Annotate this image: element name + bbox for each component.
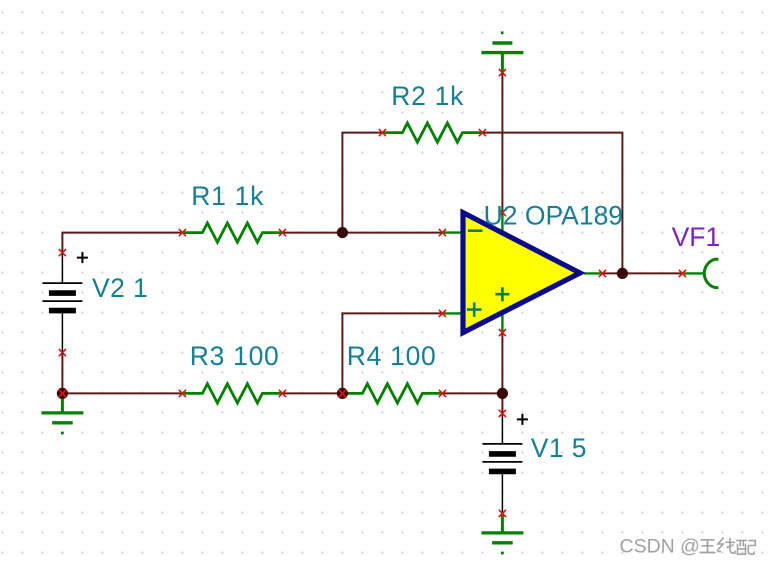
wire: R1 right to inverting input: [282, 232, 442, 234]
wire: R2 right to output node: [482, 133, 622, 274]
voltage source V1: [482, 413, 522, 513]
pin mark R4 left terminal: [339, 390, 346, 397]
op-amp U2 output pin stub: [584, 272, 603, 274]
VF1 probe: [704, 259, 718, 287]
pin mark R4 right terminal: [439, 390, 446, 397]
resistor R1: [182, 223, 282, 242]
pin mark R2 left terminal: [379, 129, 386, 136]
pin mark at ground node left: [59, 390, 66, 397]
op-amp U2 negative supply pin stub: [501, 313, 503, 333]
V1 polarity plus mark: [517, 414, 528, 425]
pin mark top ground terminal: [499, 69, 506, 76]
junction node output: [617, 268, 628, 279]
wire: top ground to op-amp V+ pin: [501, 73, 503, 213]
watermark glyph chun: [717, 538, 735, 554]
wire: V2 bottom to ground node: [61, 353, 63, 394]
pin mark U2 non-inverting input: [439, 310, 446, 317]
junction node B: [337, 388, 348, 399]
wire: op-amp V- pin to V1 node to V1 top: [501, 333, 503, 414]
op-amp input minus sign: [468, 229, 483, 232]
pin mark U2 negative supply pin: [499, 329, 506, 336]
svg-text:R3 100: R3 100: [190, 341, 280, 371]
resistor R2: [382, 123, 482, 142]
svg-text:R1 1k: R1 1k: [191, 181, 264, 211]
wire: ground node to R3 left: [62, 392, 182, 394]
wire: R4 right to V1 node: [442, 392, 502, 394]
junction node V1-top: [497, 388, 508, 399]
svg-text:R2 1k: R2 1k: [391, 81, 464, 111]
ground (bottom left, under V2): [41, 393, 83, 433]
pin mark V1 positive terminal: [499, 410, 506, 417]
op-amp input plus sign: [467, 302, 482, 317]
junction node ground-left: [57, 388, 68, 399]
resistor R3: [182, 384, 282, 403]
watermark glyph wang: [700, 540, 716, 553]
pin mark U2 inverting input: [439, 229, 446, 236]
pin mark VF1 probe terminal: [679, 270, 686, 277]
pin mark V2 positive terminal: [59, 249, 66, 256]
pin mark U2 positive supply pin: [499, 209, 506, 216]
ground (top, above op-amp): [481, 33, 523, 73]
pin mark R1 left terminal: [179, 229, 186, 236]
V2 polarity plus mark: [77, 252, 88, 263]
svg-text:U2 OPA189: U2 OPA189: [484, 201, 623, 231]
op-amp U2 triangle: [463, 213, 580, 333]
op-amp supply plus sign: [495, 287, 509, 301]
wire: node B to non-inverting input: [342, 313, 442, 393]
pin mark R3 left terminal: [179, 390, 186, 397]
ground (bottom right, under V1): [481, 513, 523, 553]
pin mark V1 negative terminal: [499, 510, 506, 517]
wire: R3 right to node B: [282, 392, 342, 394]
svg-text:V2 1: V2 1: [92, 273, 148, 303]
watermark CSDN: [620, 535, 703, 559]
wire: V2 top to R1 left: [62, 233, 182, 253]
watermark glyph pei: [736, 540, 755, 554]
svg-text:V1 5: V1 5: [531, 433, 587, 463]
pin mark R3 right terminal: [279, 390, 286, 397]
svg-text:CSDN @: CSDN @: [620, 535, 700, 557]
wire: node A up to R2 left: [342, 133, 382, 233]
junction node A (inverting input): [337, 227, 348, 238]
svg-text:R4 100: R4 100: [347, 341, 437, 371]
pin mark V2 negative terminal: [59, 349, 66, 356]
voltage source V2: [42, 253, 82, 353]
wire: output to VF1: [602, 272, 682, 274]
op-amp U2 non-inverting input pin stub: [442, 312, 461, 314]
op-amp U2 inverting input pin stub: [442, 231, 461, 233]
resistor R4: [342, 384, 442, 403]
svg-text:VF1: VF1: [672, 222, 721, 252]
op-amp U2 positive supply pin stub: [501, 213, 503, 234]
pin mark R1 right terminal: [279, 229, 286, 236]
VF1 probe lead: [684, 272, 704, 274]
pin mark R2 right terminal: [479, 129, 486, 136]
pin mark U2 output: [599, 270, 606, 277]
